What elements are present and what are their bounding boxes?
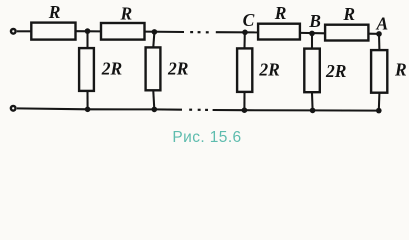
svg-text:R: R [342,4,355,24]
wire 2R under B to bottom rail [311,93,314,111]
wire terminal to R1 [17,30,31,32]
svg-text:R: R [394,59,407,79]
resistor R1 [31,23,75,40]
resistor 2R first vertical [79,48,94,91]
svg-text:C: C [243,10,255,30]
resistor 2R under node C [237,48,252,92]
terminal bottom-left input [11,106,16,111]
wire node C down to 2R [243,32,245,48]
node junction dot bottom under C [242,107,248,113]
resistor R3 [258,24,300,40]
wire node1 down to 2R [86,31,88,47]
wire node A down to R [378,34,380,50]
wire R under A to bottom rail [378,93,381,110]
wire R2 to ellipsis gap [146,31,185,33]
svg-text:A: A [376,14,389,34]
wire ellipsis gap to R3 through node C [216,31,258,33]
svg-text:R: R [48,2,61,22]
resistor 2R second vertical [146,47,161,90]
wire node2 down to 2R [153,32,154,47]
resistor R4 [325,25,368,41]
node C junction dot [242,30,248,36]
node junction dot 2 bottom [152,107,158,113]
wire 2R second to bottom rail [153,91,154,110]
node junction dot 1 bottom [85,107,91,113]
node B junction dot [309,31,315,37]
wire 2R under C to bottom rail [243,93,245,111]
resistor R under node A [371,50,387,93]
ellipsis continuation dots top rail [190,31,193,33]
node junction dot bottom under A [376,108,382,114]
resistor R2 [101,23,145,40]
node junction dot bottom under B [310,108,316,114]
wire R4 to node A [369,33,381,35]
wire bottom rail right section [213,109,379,112]
resistor 2R under node B [304,49,320,93]
svg-text:Рис. 15.6: Рис. 15.6 [172,129,241,146]
terminal top-left input [11,29,16,34]
wire node B down to 2R [311,33,313,48]
wire R1 to R2 through node [77,30,101,32]
node A junction dot [376,31,382,37]
wire bottom rail left section [17,108,182,109]
wire R3 to R4 through node B [301,32,326,34]
wire 2R to bottom rail node [86,92,88,110]
svg-text:2R: 2R [258,59,279,79]
svg-text:2R: 2R [325,61,346,81]
svg-text:2R: 2R [101,58,122,78]
ellipsis continuation dots bottom rail [189,109,192,111]
svg-text:R: R [120,3,133,23]
node junction dot 2 top [152,29,158,35]
svg-text:R: R [274,3,287,23]
svg-text:B: B [308,11,321,31]
svg-text:2R: 2R [167,58,188,78]
node junction dot 1 top [85,28,91,34]
